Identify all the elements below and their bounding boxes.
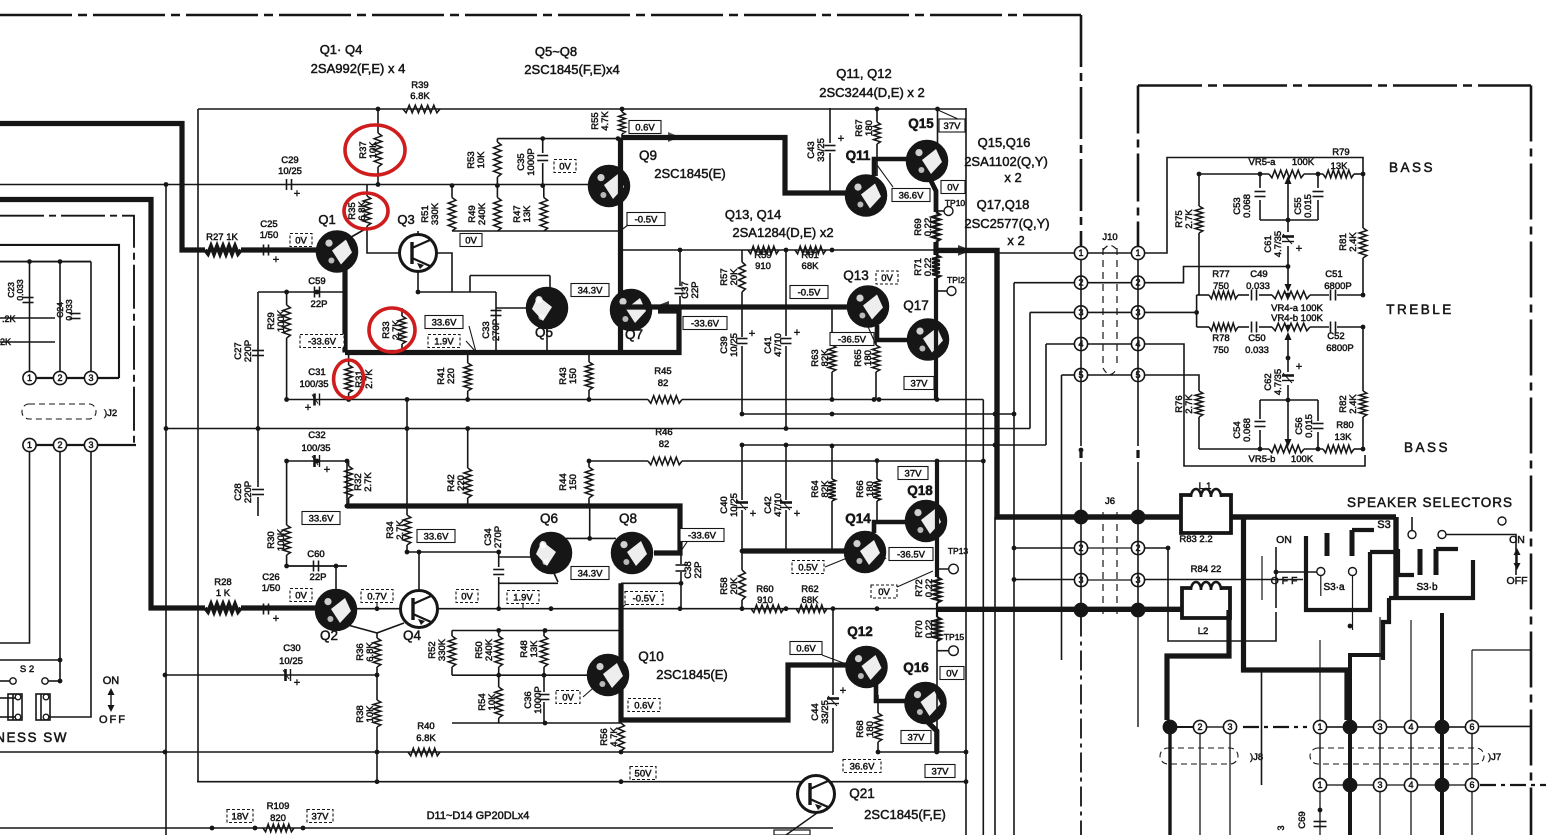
svg-text:R61: R61 (801, 250, 818, 261)
svg-text:2.4K: 2.4K (1348, 232, 1359, 252)
svg-text:20K: 20K (729, 268, 740, 286)
svg-text:-33.6V: -33.6V (691, 319, 720, 330)
svg-text:R62: R62 (801, 584, 818, 595)
svg-text:Q2: Q2 (320, 628, 338, 643)
svg-text:J10: J10 (1102, 232, 1117, 243)
svg-text:5: 5 (1439, 722, 1444, 732)
svg-text:+: + (750, 508, 756, 520)
svg-text:6800P: 6800P (1324, 281, 1351, 292)
svg-text:2SA992(F,E) x 4: 2SA992(F,E) x 4 (311, 61, 406, 76)
svg-text:0.015: 0.015 (1304, 414, 1315, 438)
svg-text:Q7: Q7 (625, 327, 643, 342)
svg-text:L 1: L 1 (1199, 481, 1212, 492)
svg-text:10/25: 10/25 (729, 333, 740, 357)
svg-text:10K: 10K (368, 141, 379, 159)
svg-text:36.6V: 36.6V (899, 191, 924, 202)
svg-text:6.8K: 6.8K (357, 201, 368, 221)
svg-text:4: 4 (1408, 780, 1413, 790)
svg-text:910: 910 (755, 261, 771, 272)
svg-text:0V: 0V (559, 162, 571, 173)
svg-text:0.068: 0.068 (1242, 418, 1253, 442)
svg-text:2SC1845(E): 2SC1845(E) (656, 667, 728, 682)
svg-text:10/25: 10/25 (729, 493, 740, 517)
svg-text:+: + (794, 327, 800, 339)
svg-text:R77: R77 (1212, 269, 1229, 280)
svg-text:34.3V: 34.3V (578, 286, 603, 297)
svg-text:Q4: Q4 (403, 628, 422, 643)
svg-text:33/25: 33/25 (820, 700, 831, 724)
svg-text:Q17: Q17 (903, 298, 929, 313)
svg-text:Q5: Q5 (535, 325, 553, 340)
svg-text:2.7K: 2.7K (1184, 209, 1195, 229)
svg-text:37V: 37V (944, 121, 962, 132)
svg-text:10/25: 10/25 (279, 656, 303, 667)
svg-text:100K: 100K (1291, 454, 1314, 465)
svg-text:47/10: 47/10 (773, 333, 784, 357)
svg-text:VR5-b: VR5-b (1249, 454, 1276, 465)
svg-text:33.6V: 33.6V (309, 514, 334, 525)
svg-text:+: + (294, 188, 300, 200)
svg-text:1: 1 (1078, 248, 1083, 258)
svg-text:R59: R59 (754, 250, 771, 261)
svg-text:-33.6V: -33.6V (308, 337, 337, 348)
svg-text:6800P: 6800P (1326, 343, 1353, 354)
svg-text:750: 750 (1213, 345, 1229, 356)
svg-text:1: 1 (1078, 512, 1083, 522)
svg-text:1.9V: 1.9V (434, 337, 454, 348)
svg-text:TPI2: TPI2 (947, 275, 965, 285)
svg-text:C26: C26 (262, 572, 279, 583)
svg-text:82: 82 (659, 439, 670, 450)
svg-text:68K: 68K (802, 261, 820, 272)
svg-text:Q12: Q12 (847, 624, 873, 639)
svg-text:3: 3 (1227, 722, 1232, 732)
svg-text:C59: C59 (308, 276, 325, 287)
svg-text:-36.5V: -36.5V (838, 335, 867, 346)
svg-text:240K: 240K (484, 638, 495, 661)
svg-text:2SC3244(D,E) x 2: 2SC3244(D,E) x 2 (819, 85, 925, 100)
svg-text:+: + (305, 402, 311, 414)
svg-text:1.9V: 1.9V (513, 593, 533, 604)
svg-text:C52: C52 (1327, 331, 1344, 342)
svg-text:18V: 18V (232, 812, 250, 823)
svg-text:0V: 0V (562, 693, 574, 704)
svg-text:3: 3 (1276, 825, 1286, 830)
svg-text:1000P: 1000P (533, 686, 544, 713)
svg-text:R83 2.2: R83 2.2 (1179, 534, 1212, 545)
svg-text:4: 4 (1408, 722, 1413, 732)
svg-text:)J2: )J2 (104, 408, 117, 419)
svg-text:0.6V: 0.6V (796, 644, 816, 655)
svg-text:82: 82 (658, 378, 669, 389)
svg-text:2SA1284(D,E) x2: 2SA1284(D,E) x2 (732, 225, 833, 240)
svg-text:0V: 0V (947, 183, 959, 194)
svg-text:ON: ON (1276, 534, 1292, 546)
svg-text:22P: 22P (690, 282, 701, 299)
svg-text:Q5~Q8: Q5~Q8 (535, 44, 577, 59)
svg-text:10K: 10K (476, 151, 487, 169)
svg-text:ON: ON (103, 675, 120, 687)
svg-text:0.033: 0.033 (64, 299, 74, 321)
svg-text:750: 750 (1213, 281, 1229, 292)
svg-text:13K: 13K (522, 205, 533, 223)
svg-text:2SC1845(F,E): 2SC1845(F,E) (864, 807, 946, 822)
svg-text:+: + (840, 685, 846, 697)
svg-text:5: 5 (1439, 780, 1444, 790)
svg-text:+: + (294, 677, 300, 689)
svg-text:20K: 20K (729, 577, 740, 595)
svg-text:C30: C30 (283, 643, 300, 654)
svg-text:S3·b: S3·b (1416, 582, 1438, 593)
svg-text:1000P: 1000P (526, 148, 537, 175)
svg-text:VR5-a: VR5-a (1249, 157, 1277, 168)
svg-text:.2K: .2K (2, 314, 16, 324)
svg-text:100K: 100K (1292, 157, 1315, 168)
svg-text:C69: C69 (1297, 811, 1308, 828)
svg-text:37V: 37V (312, 812, 330, 823)
svg-text:R84 22: R84 22 (1191, 564, 1222, 575)
svg-text:0V: 0V (878, 587, 890, 598)
svg-text:0V: 0V (465, 236, 477, 247)
svg-text:+: + (838, 133, 844, 145)
svg-text:33.6V: 33.6V (424, 532, 449, 543)
svg-text:Q3: Q3 (397, 212, 414, 227)
svg-text:Q17,Q18: Q17,Q18 (977, 197, 1030, 212)
svg-text:2SC1845(F,E)x4: 2SC1845(F,E)x4 (524, 62, 619, 77)
svg-text:6.8K: 6.8K (365, 642, 376, 662)
svg-text:2: 2 (1347, 722, 1352, 732)
svg-text:37V: 37V (911, 379, 929, 390)
svg-text:0.7V: 0.7V (367, 592, 387, 603)
svg-text:Q9: Q9 (639, 148, 657, 163)
svg-text:100/35: 100/35 (299, 379, 328, 390)
svg-text:6: 6 (1469, 780, 1474, 790)
svg-text:-33.6V: -33.6V (688, 531, 717, 542)
svg-text:220: 220 (456, 475, 467, 491)
svg-text:+: + (1296, 243, 1302, 255)
svg-text:ON: ON (1509, 534, 1525, 546)
svg-text:+: + (794, 508, 800, 520)
svg-text:2: 2 (57, 440, 62, 450)
svg-text:910: 910 (757, 595, 773, 606)
svg-text:2.7K: 2.7K (395, 520, 406, 540)
svg-text:22P: 22P (311, 299, 328, 310)
svg-text:1: 1 (1135, 512, 1140, 522)
svg-text:220P: 220P (243, 481, 254, 503)
svg-text:270P: 270P (491, 319, 502, 341)
svg-text:C50: C50 (1248, 333, 1265, 344)
svg-text:-0.5V: -0.5V (633, 594, 656, 605)
svg-text:C29: C29 (281, 155, 298, 166)
svg-text:C32: C32 (308, 430, 325, 441)
svg-text:22P: 22P (310, 572, 327, 583)
svg-text:6.8K: 6.8K (416, 733, 436, 744)
svg-text:OFF: OFF (99, 714, 127, 726)
svg-text:6.8K: 6.8K (410, 91, 430, 102)
svg-text:33/25: 33/25 (816, 138, 827, 162)
svg-text:1/50: 1/50 (260, 230, 279, 241)
svg-text:37V: 37V (932, 767, 950, 778)
svg-text:Q10: Q10 (638, 649, 664, 664)
svg-text:TREBLE: TREBLE (1386, 302, 1454, 317)
svg-text:)J8: )J8 (1250, 752, 1263, 763)
svg-text:1 K: 1 K (216, 588, 231, 599)
svg-text:0V: 0V (295, 591, 307, 602)
svg-text:BASS: BASS (1404, 440, 1450, 455)
svg-text:0V: 0V (881, 273, 893, 284)
svg-text:68K: 68K (802, 595, 820, 606)
svg-text:)J7: )J7 (1488, 752, 1501, 763)
svg-text:C25: C25 (260, 219, 277, 230)
svg-text:13K: 13K (1335, 432, 1353, 443)
svg-text:36.6V: 36.6V (850, 762, 875, 773)
svg-text:2.7K: 2.7K (363, 472, 374, 492)
svg-text:1: 1 (1317, 780, 1322, 790)
svg-text:0.5V: 0.5V (798, 563, 818, 574)
svg-text:0.033: 0.033 (15, 279, 25, 301)
svg-text:1: 1 (27, 440, 32, 450)
svg-text:180: 180 (865, 721, 876, 737)
svg-text:330K: 330K (437, 638, 448, 661)
svg-text:3: 3 (1377, 722, 1382, 732)
svg-text:S3·a: S3·a (1323, 582, 1345, 593)
svg-text:Q15: Q15 (908, 116, 934, 131)
svg-text:1: 1 (1167, 722, 1172, 732)
svg-text:x 2: x 2 (1004, 170, 1021, 185)
svg-text:220: 220 (446, 368, 457, 384)
svg-text:S 2: S 2 (20, 664, 34, 675)
svg-text:Q13, Q14: Q13, Q14 (725, 207, 781, 222)
svg-text:R45: R45 (654, 366, 671, 377)
svg-text:37V: 37V (908, 733, 926, 744)
svg-text:C60: C60 (307, 549, 324, 560)
svg-text:0V: 0V (461, 592, 473, 603)
svg-text:4.7K: 4.7K (600, 111, 611, 131)
svg-text:0.015: 0.015 (1303, 194, 1314, 218)
svg-text:2SA1102(Q,Y): 2SA1102(Q,Y) (964, 154, 1048, 169)
svg-text:0.22: 0.22 (923, 258, 934, 277)
svg-text:0.068: 0.068 (1242, 194, 1253, 218)
svg-text:Q18: Q18 (907, 483, 933, 498)
svg-text:R79: R79 (1332, 147, 1349, 158)
svg-text:10/25: 10/25 (278, 166, 302, 177)
svg-text:TP15: TP15 (944, 632, 965, 642)
svg-text:3: 3 (1377, 780, 1382, 790)
svg-text:180: 180 (863, 350, 874, 366)
svg-text:33.6V: 33.6V (432, 318, 457, 329)
svg-text:+: + (749, 328, 755, 340)
svg-text:0V: 0V (295, 236, 307, 247)
svg-text:Q15,Q16: Q15,Q16 (978, 135, 1031, 150)
svg-text:2.7K: 2.7K (1184, 394, 1195, 414)
svg-text:50V: 50V (635, 769, 653, 780)
svg-text:0.6V: 0.6V (635, 123, 655, 134)
svg-text:2SC1845(E): 2SC1845(E) (654, 166, 726, 181)
svg-text:100/35: 100/35 (301, 443, 330, 454)
svg-text:240K: 240K (477, 202, 488, 225)
svg-text:S3: S3 (1377, 519, 1390, 531)
svg-text:1/50: 1/50 (262, 583, 281, 594)
svg-text:150: 150 (568, 368, 579, 384)
svg-text:0.22: 0.22 (924, 620, 935, 639)
svg-text:0.22: 0.22 (923, 218, 934, 237)
svg-text:0.22: 0.22 (924, 579, 935, 598)
svg-text:R109: R109 (267, 801, 290, 812)
svg-text:100K: 100K (276, 528, 287, 551)
svg-text:34.3V: 34.3V (578, 569, 603, 580)
svg-text:R46: R46 (655, 427, 672, 438)
svg-text:10K: 10K (365, 705, 376, 723)
svg-text:4.7K: 4.7K (609, 727, 620, 747)
svg-text:100K: 100K (276, 309, 287, 332)
svg-text:1: 1 (1317, 722, 1322, 732)
svg-text:Q16: Q16 (903, 660, 929, 675)
svg-text:J6: J6 (1105, 496, 1115, 507)
svg-text:1: 1 (27, 373, 32, 383)
svg-text:Q11: Q11 (846, 148, 871, 163)
svg-text:2.7K: 2.7K (364, 369, 375, 389)
svg-text:Q11, Q12: Q11, Q12 (836, 66, 891, 81)
svg-text:R39: R39 (411, 80, 428, 91)
svg-text:-0.5V: -0.5V (635, 215, 658, 226)
svg-text:4.7/35: 4.7/35 (1273, 369, 1284, 395)
svg-text:Q1· Q4: Q1· Q4 (320, 42, 363, 57)
svg-text:2.4K: 2.4K (1348, 394, 1359, 414)
svg-text:22P: 22P (693, 562, 704, 579)
svg-text:Q8: Q8 (619, 511, 637, 526)
svg-text:-36.5V: -36.5V (897, 550, 926, 561)
svg-text:D11~D14 GP20DLx4: D11~D14 GP20DLx4 (427, 810, 530, 822)
svg-text:R40: R40 (417, 721, 434, 732)
svg-text:+: + (273, 613, 279, 625)
svg-text:0.033: 0.033 (1246, 281, 1270, 292)
svg-text:330K: 330K (430, 202, 441, 225)
svg-text:OFF: OFF (1507, 575, 1528, 587)
svg-text:4.7/35: 4.7/35 (1273, 231, 1284, 257)
svg-text:150: 150 (568, 474, 579, 490)
svg-text:+: + (273, 254, 279, 266)
svg-text:82K: 82K (820, 349, 831, 367)
svg-text:Q1: Q1 (318, 212, 335, 227)
svg-text:2: 2 (57, 373, 62, 383)
svg-text:Q21: Q21 (849, 786, 875, 801)
svg-text:2SC2577(Q,Y): 2SC2577(Q,Y) (964, 216, 1049, 231)
svg-text:0V: 0V (946, 669, 958, 680)
svg-text:0.033: 0.033 (1245, 345, 1269, 356)
svg-text:3: 3 (88, 440, 93, 450)
svg-text:10K: 10K (487, 693, 498, 711)
svg-text:Q6: Q6 (540, 511, 558, 526)
svg-text:220P: 220P (243, 340, 254, 362)
svg-text:37V: 37V (905, 469, 923, 480)
svg-text:82K: 82K (820, 480, 831, 498)
svg-text:13K: 13K (529, 640, 540, 658)
svg-text:O F F: O F F (1271, 575, 1298, 587)
svg-text:+: + (324, 464, 330, 476)
svg-text:R80: R80 (1336, 420, 1353, 431)
svg-text:-0.5V: -0.5V (798, 288, 821, 299)
svg-text:R60: R60 (756, 584, 773, 595)
svg-text:2: 2 (1197, 722, 1202, 732)
svg-text:270P: 270P (493, 526, 504, 548)
svg-text:DNESS SW: DNESS SW (0, 730, 68, 745)
svg-text:2: 2 (1347, 780, 1352, 790)
svg-text:Q13: Q13 (843, 268, 869, 283)
svg-text:C51: C51 (1325, 269, 1342, 280)
svg-text:0.6V: 0.6V (634, 701, 654, 712)
svg-text:Q14: Q14 (845, 511, 871, 526)
svg-text:x 2: x 2 (1007, 233, 1024, 248)
svg-text:+: + (1296, 361, 1302, 373)
svg-text:L2: L2 (1198, 626, 1209, 637)
svg-text:C31: C31 (308, 367, 325, 378)
svg-text:R78: R78 (1212, 333, 1229, 344)
svg-text:180: 180 (864, 120, 875, 136)
svg-text:BASS: BASS (1389, 160, 1435, 175)
svg-text:1: 1 (1135, 248, 1140, 258)
svg-text:180: 180 (865, 481, 876, 497)
svg-text:R28: R28 (214, 577, 231, 588)
svg-text:R27 1K: R27 1K (206, 232, 238, 243)
svg-text:3: 3 (88, 373, 93, 383)
svg-text:2.7K: 2.7K (391, 320, 402, 340)
svg-text:47/10: 47/10 (773, 493, 784, 517)
svg-text:C49: C49 (1250, 269, 1267, 280)
svg-text:6: 6 (1469, 722, 1474, 732)
svg-text:SPEAKER SELECTORS: SPEAKER SELECTORS (1347, 495, 1513, 510)
